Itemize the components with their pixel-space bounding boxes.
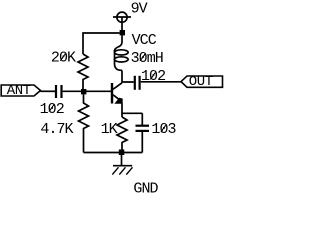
- port ANT: [1, 85, 40, 96]
- svg-text:30mH: 30mH: [131, 50, 163, 67]
- wire capacitor to base: [63, 90, 111, 92]
- resistor R2 4.7K: [79, 94, 89, 152]
- svg-text:OUT: OUT: [189, 74, 213, 90]
- svg-text:VCC: VCC: [132, 32, 157, 49]
- resistor R1 20K: [78, 54, 88, 89]
- zero slashes: [49, 54, 166, 132]
- wire C2 to OUT: [141, 81, 181, 83]
- transistor Q1: [111, 83, 113, 104]
- svg-text:103: 103: [151, 121, 176, 138]
- node base junction: [81, 89, 86, 94]
- capacitor C1 102: [55, 85, 57, 98]
- wire emitter ground rail: [84, 152, 143, 154]
- svg-text:9V: 9V: [131, 1, 148, 18]
- wire emitter to 1K: [121, 113, 123, 117]
- wire VCC rail to 20K: [83, 33, 120, 54]
- svg-text:102: 102: [40, 101, 64, 118]
- port OUT: [181, 76, 223, 87]
- svg-text:1K: 1K: [101, 121, 118, 138]
- resistor R3 1K: [117, 117, 127, 150]
- svg-text:20K: 20K: [51, 50, 76, 67]
- ground: [121, 155, 123, 166]
- node ground junction: [119, 150, 125, 156]
- svg-text:ANT: ANT: [7, 83, 31, 99]
- capacitor C3 103: [141, 113, 143, 125]
- wire ANT to capacitor: [41, 90, 56, 92]
- svg-text:4.7K: 4.7K: [40, 121, 73, 138]
- wire collector trunk: [122, 71, 134, 83]
- svg-text:102: 102: [141, 68, 165, 85]
- capacitor C2 102: [134, 76, 136, 90]
- node VCC junction: [120, 30, 125, 35]
- wire emitter trunk: [122, 103, 142, 113]
- power terminal 9V: [117, 12, 127, 22]
- inductor L1 30mH: [115, 35, 123, 51]
- svg-text:GND: GND: [133, 181, 158, 197]
